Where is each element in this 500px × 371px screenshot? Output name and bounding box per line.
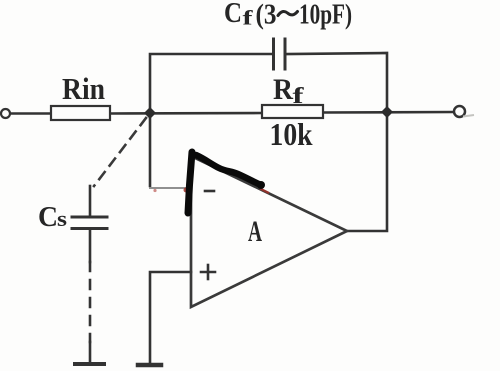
svg-text:10k: 10k (270, 116, 313, 152)
svg-text:R: R (273, 73, 293, 106)
svg-text:C: C (224, 0, 242, 29)
svg-text:f: f (293, 83, 304, 108)
svg-text:C: C (38, 202, 58, 233)
svg-text:f: f (243, 6, 254, 30)
svg-text:(3: (3 (256, 0, 277, 31)
svg-text:10pF): 10pF) (299, 0, 352, 31)
svg-text:Rin: Rin (62, 71, 105, 106)
svg-text:s: s (57, 206, 68, 231)
svg-text:A: A (248, 215, 262, 248)
